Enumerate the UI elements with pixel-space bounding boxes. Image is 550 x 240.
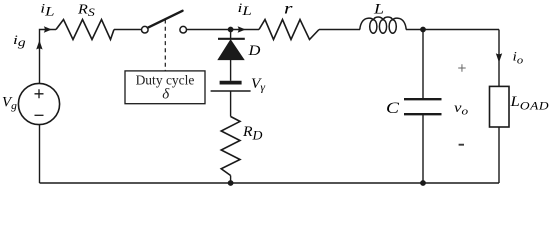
svg-text:C: C [386,99,399,117]
dashed control line from switch to duty-cycle box [164,20,166,71]
label plus v_o [458,64,466,72]
wire capacitor to bottom rail [422,114,424,183]
load resistor L_OAD box [490,86,510,127]
capacitor C bottom plate [404,113,442,115]
inductor L [360,17,406,33]
wire r to inductor [319,29,360,31]
label minus v_o [459,144,464,146]
svg-text:D: D [247,43,261,59]
svg-text:r: r [284,0,293,17]
arrow i_L mid [238,26,246,33]
wire diode branch from node [230,30,232,39]
wire top-left corner to R_S [40,30,57,84]
resistor R_D [221,117,240,176]
capacitor C top plate [404,98,442,100]
svg-text:ig: ig [13,33,26,49]
diode D cathode bar [218,38,245,40]
battery V_gamma short thick plate [220,81,242,85]
svg-text:δ: δ [162,87,170,103]
wire source bottom to rail [39,125,41,183]
wire battery to R_D [230,91,232,117]
switch lever [148,11,183,28]
wire resistor r span [259,20,319,40]
svg-text:RS: RS [77,2,95,19]
arrow i_L left [44,26,52,33]
Vg minus sign [35,114,44,116]
svg-text:RD: RD [242,125,263,143]
diode D triangle [218,40,244,60]
wire R_D to bottom rail [230,176,232,184]
resistor R_S [56,20,114,40]
wire inductor to top-right corner [406,29,499,31]
wire bottom rail [40,182,500,184]
wire load to bottom-right corner [498,127,500,183]
switch throw contact (right circle) [180,26,187,33]
svg-text:L: L [373,0,384,17]
wire R_S to switch [114,29,141,31]
wire diode to battery [230,60,232,81]
wire capacitor branch from node [422,30,424,100]
wire switch to diode node [187,29,260,31]
switch pole contact (left circle) [142,26,149,33]
node A junction dot (diode top) [228,27,234,33]
wire right side down to load [498,30,500,87]
node C junction dot (R_D bottom) [228,180,234,186]
arrow i_g [36,40,42,49]
arrow i_o [496,53,502,62]
node D junction dot (cap bottom) [420,180,426,186]
voltage source Vg [18,83,59,124]
duty cycle control box [125,71,205,104]
Vg plus sign [35,89,44,98]
svg-text:Duty cycle: Duty cycle [136,72,195,87]
battery V_gamma long thin plate [211,90,251,92]
node B junction dot (inductor/cap top) [420,27,426,33]
